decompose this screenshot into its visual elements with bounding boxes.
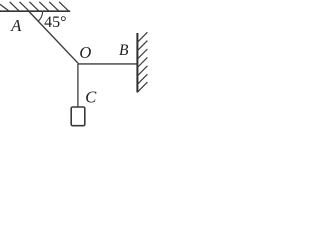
wall (right) [136,33,138,93]
angle arc at A vertex [38,11,42,21]
ceiling hatching [0,2,69,11]
block C (hanging weight) [71,107,85,126]
ceiling line [0,10,70,12]
svg-text:A: A [10,16,22,35]
wall hatching [137,32,147,92]
rope OC (vertical wire) [77,64,79,107]
rod OB (horizontal wire) [79,63,138,65]
svg-text:C: C [85,87,97,106]
rope AO (diagonal wire) [29,12,79,64]
svg-text:B: B [119,42,129,59]
svg-text:45°: 45° [44,14,66,31]
svg-text:O: O [79,43,91,62]
